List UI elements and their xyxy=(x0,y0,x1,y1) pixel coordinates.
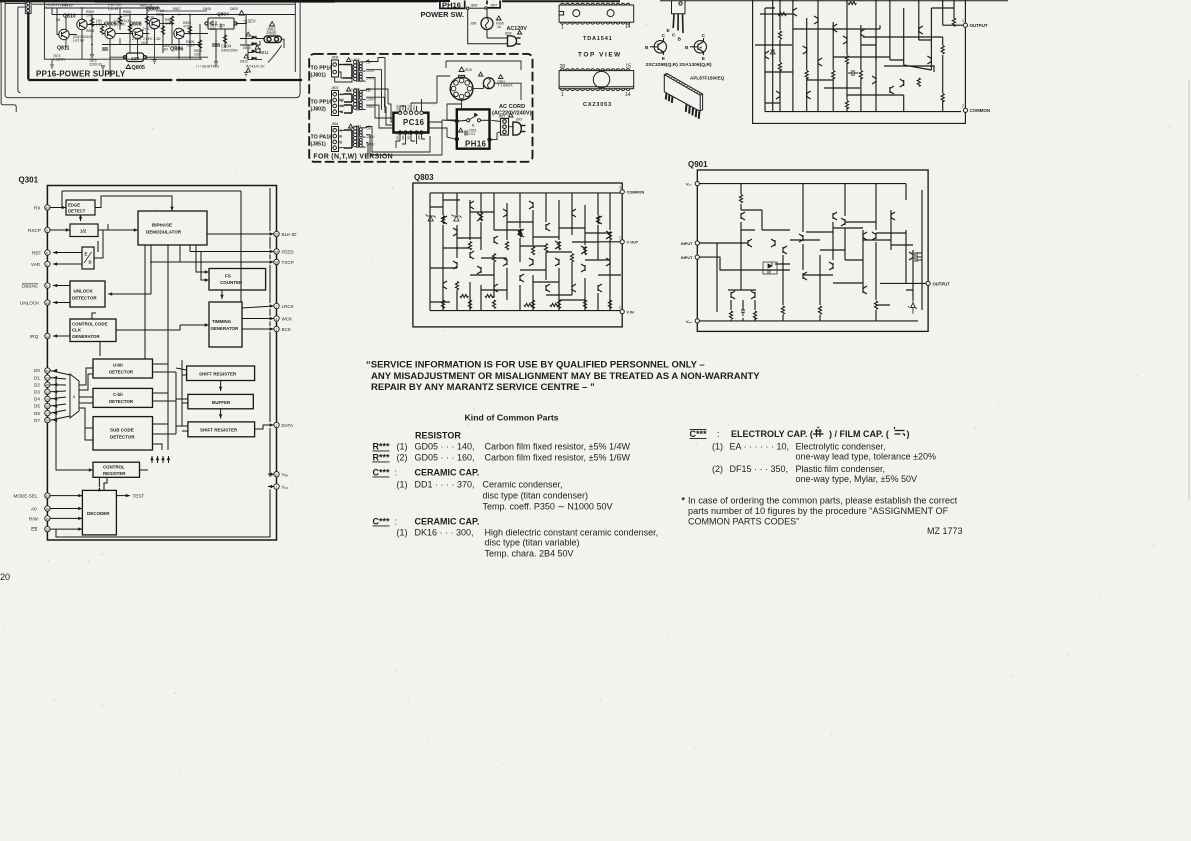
svg-text:D809: D809 xyxy=(230,7,238,11)
svg-text:TDA1541: TDA1541 xyxy=(583,36,613,42)
rail xyxy=(44,7,160,9)
svg-text:1: 1 xyxy=(561,92,564,98)
svg-text:J814: J814 xyxy=(407,133,411,140)
resistors Q803 interior xyxy=(441,216,444,224)
svg-text:R801 1K: R801 1K xyxy=(140,4,154,8)
svg-text:D1: D1 xyxy=(34,375,40,380)
svg-text:D0: D0 xyxy=(34,368,40,373)
svg-text:20: 20 xyxy=(46,419,50,423)
connector J801 to PP16 xyxy=(25,1,31,14)
svg-text:MZ 1773: MZ 1773 xyxy=(927,526,963,536)
inner schematic frame xyxy=(44,0,295,72)
svg-text:2: 2 xyxy=(340,63,342,67)
svg-text:one-way type, Mylar, ±5% 50V: one-way type, Mylar, ±5% 50V xyxy=(796,474,918,484)
mosfet right xyxy=(915,247,922,266)
transistor Q807 xyxy=(149,18,160,28)
svg-text:B: B xyxy=(678,37,682,43)
service notice text xyxy=(366,360,760,393)
pin MODE-SEL xyxy=(45,493,50,498)
svg-text:Kind of Common Parts: Kind of Common Parts xyxy=(465,413,559,423)
PC16 block xyxy=(393,113,428,133)
capacitor C807 xyxy=(102,48,108,50)
svg-text:10: 10 xyxy=(46,528,50,532)
wires Q301 xyxy=(50,188,274,537)
svg-text:1A: 1A xyxy=(497,25,502,29)
svg-text:CONTROL: CONTROL xyxy=(103,465,125,470)
wire fuse to switch xyxy=(468,8,508,44)
pin UNLOCK xyxy=(45,300,50,305)
svg-text:RESISTOR: RESISTOR xyxy=(415,431,461,441)
svg-text:GD05 · · · 140,: GD05 · · · 140, xyxy=(415,442,475,452)
transistor Q811 xyxy=(59,29,69,39)
svg-text:1: 1 xyxy=(561,25,564,31)
block EDGE DETECT xyxy=(66,200,95,215)
svg-text:EA · · · · · · 10,: EA · · · · · · 10, xyxy=(730,442,790,452)
PP16 power supply section xyxy=(1,0,302,112)
svg-text:(+)0.7V: (+)0.7V xyxy=(143,27,155,31)
PH16 POWER SW label box xyxy=(440,1,465,10)
block TIMING GENERATOR xyxy=(209,302,242,347)
svg-text:3: 3 xyxy=(619,186,621,190)
svg-text:220Ω 6V: 220Ω 6V xyxy=(89,63,103,67)
block SHIFT REGISTER 1 xyxy=(187,366,255,381)
svg-text:P805: P805 xyxy=(267,31,277,36)
svg-text:V OUT: V OUT xyxy=(627,241,639,245)
svg-text:D: D xyxy=(89,260,92,265)
svg-text:16V: 16V xyxy=(162,48,169,52)
warning triangle cord xyxy=(509,113,513,117)
resistor Vcc xyxy=(739,195,742,203)
diode mid xyxy=(518,230,522,234)
wire horizontals xyxy=(755,8,963,103)
svg-text:(1): (1) xyxy=(712,442,723,452)
svg-text:(2): (2) xyxy=(712,464,723,474)
pin Vee xyxy=(695,319,699,323)
svg-text:CS: CS xyxy=(31,527,37,532)
svg-text:J854: J854 xyxy=(331,122,338,126)
svg-text:2: 2 xyxy=(340,135,342,139)
regulator DV box Q805 xyxy=(123,53,146,62)
svg-text:Q811: Q811 xyxy=(57,46,70,52)
svg-text:(2): (2) xyxy=(397,453,408,463)
transistor Q806 xyxy=(174,28,184,38)
fuse F851 xyxy=(483,78,494,89)
AC plug 120V xyxy=(508,36,521,46)
block 1/2 xyxy=(70,224,98,237)
svg-text:Vₑₑ: Vₑₑ xyxy=(282,472,289,477)
svg-text:TIMMING: TIMMING xyxy=(212,319,232,324)
input stage wires xyxy=(699,243,775,312)
svg-text:CERAMIC CAP.: CERAMIC CAP. xyxy=(415,468,480,478)
svg-text:(-)0.3V: (-)0.3V xyxy=(108,7,119,11)
svg-text:D808: D808 xyxy=(203,7,211,11)
svg-text:DETECTOR: DETECTOR xyxy=(109,399,134,404)
connector bar 3pin xyxy=(501,119,509,136)
right pin WCK xyxy=(274,316,279,321)
svg-text:(1): (1) xyxy=(397,528,408,538)
horizontals xyxy=(741,210,926,305)
svg-text:(1): (1) xyxy=(397,442,408,452)
wire T3 pins xyxy=(339,130,345,147)
svg-text:disc type (titan condenser): disc type (titan condenser) xyxy=(483,491,589,501)
svg-text:100Ω: 100Ω xyxy=(165,22,174,26)
svg-text:3300/35H: 3300/35H xyxy=(221,49,238,53)
wire horizontals xyxy=(430,200,621,302)
svg-text:10Ω: 10Ω xyxy=(194,53,201,57)
svg-text:Q803: Q803 xyxy=(414,173,434,182)
svg-text:UNLOCK: UNLOCK xyxy=(20,301,40,306)
AC plug 220/240 xyxy=(513,122,526,135)
warning triangles near diodes xyxy=(244,32,259,72)
mating plug block T3 xyxy=(344,130,352,148)
warning triangle selector xyxy=(459,67,464,72)
left rail xyxy=(429,193,431,311)
IC internal schematic top-right (cut off at top) xyxy=(753,0,966,123)
svg-text:R/W: R/W xyxy=(29,516,39,521)
right pin LRCK xyxy=(274,303,279,308)
step wire to output xyxy=(861,8,954,60)
block U-bit DETECTOR xyxy=(93,359,153,378)
svg-text:C***: C*** xyxy=(373,468,391,478)
svg-text:J809: J809 xyxy=(401,104,405,111)
svg-text:C***: C*** xyxy=(690,429,708,439)
svg-text:D5: D5 xyxy=(34,404,40,409)
svg-text:J812: J812 xyxy=(396,133,400,140)
resistors xyxy=(778,31,781,39)
svg-text:(+)0.8V: (+)0.8V xyxy=(114,23,126,27)
svg-text:3: 3 xyxy=(340,129,342,133)
block BIPHASE DEMODULATOR xyxy=(138,211,207,245)
small value labels (illegible) xyxy=(46,3,265,69)
svg-text:(+)2.8V: (+)2.8V xyxy=(73,39,85,43)
svg-text:2: 2 xyxy=(619,306,621,310)
svg-text:B: B xyxy=(685,45,689,51)
pin OUTPUT xyxy=(926,281,930,285)
svg-text:WCK: WCK xyxy=(282,317,294,322)
svg-text:disc type (titan variable): disc type (titan variable) xyxy=(485,538,580,548)
Q803 outer box xyxy=(413,183,622,327)
pin A0 xyxy=(45,506,50,511)
wire verticals xyxy=(443,193,610,311)
svg-text:): ) xyxy=(907,429,910,439)
svg-text:CERAMIC CAP.: CERAMIC CAP. xyxy=(415,517,480,527)
wire with pins J805/J807 xyxy=(467,7,488,10)
svg-text:CX23053: CX23053 xyxy=(583,102,612,108)
svg-text:(+)2.4V: (+)2.4V xyxy=(96,23,108,27)
svg-text:14: 14 xyxy=(46,335,50,339)
svg-text:GENERATOR: GENERATOR xyxy=(72,334,100,339)
svg-text:14: 14 xyxy=(625,92,631,98)
pin V IN xyxy=(620,310,624,314)
svg-text:1: 1 xyxy=(619,236,621,240)
diode D811 pair rows xyxy=(252,36,256,61)
svg-text:(1): (1) xyxy=(397,480,408,490)
svg-text:(+)4.8V: (+)4.8V xyxy=(62,4,74,8)
svg-text:CONTROL CODE: CONTROL CODE xyxy=(72,322,108,327)
cut-off schematic content along top scan edge xyxy=(0,0,1008,3)
svg-text:INPUT: INPUT xyxy=(681,242,693,246)
PC16 bottom pins xyxy=(398,131,423,134)
svg-text:J811: J811 xyxy=(412,105,416,111)
pin DBSNC xyxy=(45,283,50,288)
svg-text:J815: J815 xyxy=(417,133,421,140)
svg-text:ELECTROLY CAP. (: ELECTROLY CAP. ( xyxy=(731,429,813,439)
svg-text:DECODER: DECODER xyxy=(87,511,110,516)
warning triangle F806 xyxy=(497,16,502,20)
zener near output xyxy=(908,296,916,314)
transistors Q803 interior xyxy=(443,216,447,224)
svg-text:POWER SW.: POWER SW. xyxy=(421,10,465,19)
svg-text:2SC3298(Q,R) 2SA1306(Q,R): 2SC3298(Q,R) 2SA1306(Q,R) xyxy=(646,62,712,68)
block CONTROL REGISTER xyxy=(93,462,140,477)
warning triangles fuse xyxy=(479,72,483,76)
svg-text:SUB CODE: SUB CODE xyxy=(110,428,134,433)
svg-text:A0: A0 xyxy=(31,507,37,512)
svg-text:17: 17 xyxy=(46,412,50,416)
svg-text:Vₒₒ: Vₒₒ xyxy=(686,320,692,324)
svg-text:BIPHASE: BIPHASE xyxy=(152,223,172,228)
svg-text:DETECTOR: DETECTOR xyxy=(110,435,135,440)
mux trapezoid xyxy=(70,374,79,418)
svg-text:REGISTER: REGISTER xyxy=(103,471,126,476)
svg-text:D811: D811 xyxy=(259,50,269,55)
outer case xyxy=(753,0,966,123)
Q301 outer box xyxy=(47,186,276,541)
svg-text:10: 10 xyxy=(275,250,279,254)
svg-text:D4: D4 xyxy=(34,397,40,402)
zener diodes left xyxy=(426,214,436,221)
svg-text:LRCK: LRCK xyxy=(282,304,295,309)
svg-text:J807: J807 xyxy=(490,4,497,8)
svg-text:J803: J803 xyxy=(331,86,338,90)
svg-text:DETECTOR: DETECTOR xyxy=(72,296,97,301)
svg-text:16: 16 xyxy=(46,507,50,511)
PC16 pin labels rotated xyxy=(396,104,422,140)
svg-text:parts number of 10 figures: parts number of 10 figures by the proced… xyxy=(688,506,949,516)
diode-cap cluster xyxy=(763,262,777,274)
pin COMMON xyxy=(620,190,624,194)
svg-text:SHIFT REGISTER: SHIFT REGISTER xyxy=(200,428,238,433)
capacitor xyxy=(741,306,745,316)
transformer T801 xyxy=(353,60,369,82)
svg-text:B: B xyxy=(645,45,649,51)
pin CS xyxy=(45,526,50,531)
block DECODER xyxy=(82,490,116,535)
svg-text:TOP VIEW: TOP VIEW xyxy=(578,52,622,59)
transformer T851 xyxy=(353,126,369,148)
transformer T802 xyxy=(353,88,369,110)
bottom rail xyxy=(765,111,961,113)
wires to connector xyxy=(240,39,284,63)
svg-text:15: 15 xyxy=(275,233,279,237)
svg-text:25: 25 xyxy=(46,390,50,394)
right pin Vss xyxy=(274,484,279,489)
svg-text:TXCP: TXCP xyxy=(282,260,294,265)
svg-text:18: 18 xyxy=(275,261,279,265)
svg-text:1KV: 1KV xyxy=(141,41,148,45)
block UNLOCK DETECTOR xyxy=(70,281,105,307)
PH16 block xyxy=(457,109,490,148)
svg-text:FEED: FEED xyxy=(282,250,295,255)
pin INPUT- xyxy=(695,255,699,259)
IC package CX23053 xyxy=(559,69,634,91)
svg-text:Ceramic condenser,: Ceramic condenser, xyxy=(483,480,563,490)
svg-text:PH16: PH16 xyxy=(465,140,487,149)
transistor package TO-126 xyxy=(672,1,686,34)
label Q805 with warning triangle xyxy=(126,65,131,69)
svg-text:REPAIR BY ANY MARANTZ SERVICE: REPAIR BY ANY MARANTZ SERVICE CENTRE – ” xyxy=(371,382,595,393)
svg-text:R808: R808 xyxy=(86,29,94,33)
svg-text:Q301: Q301 xyxy=(19,176,39,185)
fuse F806 circle xyxy=(481,18,493,30)
capacitor C804 xyxy=(212,40,220,50)
svg-text:OUTPUT: OUTPUT xyxy=(970,23,988,28)
svg-text:MODE-SEL: MODE-SEL xyxy=(14,494,38,499)
svg-text:+12EV: +12EV xyxy=(243,19,256,24)
svg-text:D812: D812 xyxy=(240,60,248,64)
svg-text:0.01: 0.01 xyxy=(469,132,476,136)
svg-text:12V: 12V xyxy=(131,56,140,61)
svg-text:COMMON: COMMON xyxy=(627,191,645,195)
svg-text:27: 27 xyxy=(46,376,50,380)
svg-text:PP16-POWER SUPPLY: PP16-POWER SUPPLY xyxy=(36,70,126,79)
diode xyxy=(770,50,775,54)
FOR (N,T,W) VERSION dashed enclosure xyxy=(309,54,532,162)
svg-text:2.2Ω/6V: 2.2Ω/6V xyxy=(53,58,66,62)
out wire xyxy=(598,241,621,243)
svg-text:D7: D7 xyxy=(34,418,40,423)
svg-text:1/2: 1/2 xyxy=(80,229,87,234)
wires inside FOR box xyxy=(366,58,521,158)
power SIP package APL8TF1500EQ xyxy=(664,73,702,119)
pin R/W xyxy=(45,516,50,521)
voltage selector drum xyxy=(450,75,473,100)
svg-text:APL8TF1500EQ: APL8TF1500EQ xyxy=(690,76,725,81)
svg-text:3V: 3V xyxy=(150,16,155,20)
pin INPUT+ xyxy=(695,241,699,245)
transistor symbol 2SA1306 xyxy=(690,38,707,55)
svg-text:R***: R*** xyxy=(373,453,391,463)
svg-text:Temp. chara. 2B4 50V: Temp. chara. 2B4 50V xyxy=(485,549,574,559)
connector J806 xyxy=(332,60,339,77)
transistor Q808 xyxy=(132,28,143,38)
svg-text:47Ω: 47Ω xyxy=(183,25,190,29)
svg-text:C: C xyxy=(662,33,666,39)
bottom rail xyxy=(430,310,621,312)
pin REF xyxy=(45,250,50,255)
pin OUTPUT xyxy=(963,23,967,27)
arrowheads xyxy=(62,206,66,209)
warning triangle xyxy=(239,11,244,16)
svg-text:C8: C8 xyxy=(56,18,60,22)
transistors Q901 xyxy=(741,212,745,220)
pin RX xyxy=(45,205,50,210)
svg-text:18: 18 xyxy=(46,405,50,409)
svg-text:OF: OF xyxy=(367,127,372,131)
svg-text:D6: D6 xyxy=(34,411,40,416)
svg-text:ANY MISADJUSTMENT OR MISALIGNM: ANY MISADJUSTMENT OR MISALIGNMENT MAY BE… xyxy=(371,371,760,382)
svg-text:DBSNC: DBSNC xyxy=(22,284,39,289)
svg-text:TO PP16: TO PP16 xyxy=(311,66,333,72)
pin COMMON xyxy=(963,108,967,112)
warning triangle L851 xyxy=(349,124,353,128)
svg-text:15: 15 xyxy=(46,517,50,521)
svg-text:DD1 · · · · 370,: DD1 · · · · 370, xyxy=(415,480,475,490)
svg-text:COMMON: COMMON xyxy=(970,108,991,113)
svg-text:Q805: Q805 xyxy=(132,65,145,71)
svg-text:23: 23 xyxy=(46,206,50,210)
svg-text:T 1.6AmA: T 1.6AmA xyxy=(498,84,514,88)
cap mark xyxy=(848,70,858,76)
IC package TDA1541 top view xyxy=(559,3,634,24)
svg-text:Temp. coeff. P350 ∼ N1000 50V: Temp. coeff. P350 ∼ N1000 50V xyxy=(483,502,613,512)
capacitor 0.01 in PH16 xyxy=(465,131,467,136)
svg-text:/ / / BUSTING: / / / BUSTING xyxy=(196,65,219,69)
svg-text:Q804: Q804 xyxy=(217,12,229,18)
svg-text:J810: J810 xyxy=(407,104,411,111)
svg-text:EDGE: EDGE xyxy=(68,202,80,207)
svg-text:800!: 800! xyxy=(516,118,523,122)
svg-text:PC16: PC16 xyxy=(403,118,425,127)
svg-text:(J802): (J802) xyxy=(311,107,327,113)
svg-text::: : xyxy=(717,429,720,439)
svg-text:AC CORD: AC CORD xyxy=(499,104,525,110)
svg-text:26: 26 xyxy=(46,369,50,373)
svg-text:240V: 240V xyxy=(366,77,376,81)
right pin TXCP xyxy=(274,259,279,264)
svg-text:C: C xyxy=(702,33,706,39)
svg-text:*: * xyxy=(682,496,686,506)
svg-text:In case of ordering the c: In case of ordering the common parts, pl… xyxy=(688,496,958,506)
warning triangle L802 xyxy=(347,58,351,62)
svg-text:OUTPUT: OUTPUT xyxy=(933,281,951,286)
svg-text:Carbon film fixed resistor, ±: Carbon film fixed resistor, ±5% 1/6W xyxy=(485,453,631,463)
svg-text:Electrolytic condenser,: Electrolytic condenser, xyxy=(796,442,886,452)
svg-text:28: 28 xyxy=(560,64,566,70)
switch inside PH16 xyxy=(455,113,491,142)
svg-text:Vₑₑ: Vₑₑ xyxy=(686,183,692,187)
svg-text::: : xyxy=(395,517,398,527)
svg-text:DETECT: DETECT xyxy=(68,208,86,213)
wire connector to bus xyxy=(5,3,25,92)
svg-text:GD05 · · · 160,: GD05 · · · 160, xyxy=(415,453,475,463)
rail xyxy=(52,14,295,16)
right pin DATA xyxy=(274,422,279,427)
svg-text:VAR: VAR xyxy=(31,262,41,267)
block FS COUNTER xyxy=(209,269,266,291)
svg-text:GENERATOR: GENERATOR xyxy=(211,326,239,331)
block SHIFT REGISTER 2 xyxy=(188,422,255,437)
pin Vcc xyxy=(695,182,699,186)
block SUB CODE DETECTOR xyxy=(93,417,153,450)
svg-text:RXCP: RXCP xyxy=(28,228,41,233)
svg-text:J816: J816 xyxy=(465,68,472,72)
warning triangle L801 xyxy=(347,87,351,91)
svg-text:J852: J852 xyxy=(498,115,505,119)
svg-text:14: 14 xyxy=(625,24,631,30)
svg-text:C-bit: C-bit xyxy=(113,392,123,397)
svg-text:U-bit: U-bit xyxy=(113,363,123,368)
svg-text:Q810: Q810 xyxy=(63,14,76,20)
svg-text:TEST: TEST xyxy=(133,494,145,499)
svg-text:(J801): (J801) xyxy=(311,73,327,79)
svg-text:39V: 39V xyxy=(123,14,130,18)
svg-text:J805: J805 xyxy=(470,4,477,8)
right pin FEED xyxy=(274,249,279,254)
curved cable arc xyxy=(268,46,282,63)
svg-text:R807: R807 xyxy=(173,7,181,11)
svg-text:DF15 · · · 350,: DF15 · · · 350, xyxy=(730,464,789,474)
